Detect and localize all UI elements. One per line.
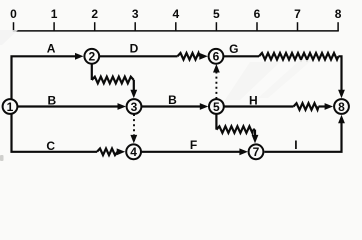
svg-text:7: 7 [253,145,260,159]
svg-text:2: 2 [88,50,95,64]
svg-text:F: F [190,138,197,152]
svg-text:3: 3 [132,7,139,21]
svg-text:2: 2 [91,7,98,21]
svg-text:3: 3 [131,100,138,114]
svg-text:4: 4 [130,145,137,159]
svg-text:G: G [229,42,238,56]
svg-text:D: D [130,42,139,56]
svg-text:B: B [168,93,177,107]
svg-text:4: 4 [172,7,179,21]
svg-text:B: B [47,93,56,107]
svg-text:1: 1 [51,7,58,21]
svg-text:H: H [249,94,258,108]
svg-text:8: 8 [338,100,345,114]
svg-text:5: 5 [213,100,220,114]
svg-text:A: A [47,42,56,56]
svg-text:8: 8 [335,7,342,21]
svg-text:I: I [294,138,297,152]
svg-text:5: 5 [213,7,220,21]
svg-text:C: C [46,139,55,153]
svg-text:7: 7 [294,7,301,21]
svg-text:1: 1 [7,100,14,114]
svg-text:0: 0 [10,7,17,21]
svg-text:6: 6 [254,7,261,21]
svg-text:6: 6 [213,50,220,64]
